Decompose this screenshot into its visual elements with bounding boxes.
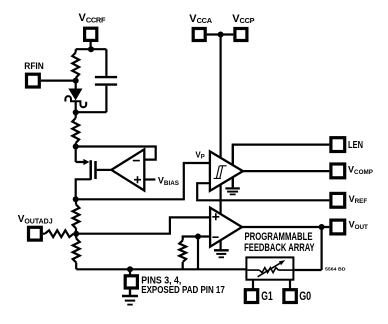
svg-text:RFIN: RFIN — [24, 61, 44, 72]
svg-text:LEN: LEN — [348, 140, 363, 151]
svg-text:EXPOSED PAD PIN 17: EXPOSED PAD PIN 17 — [141, 285, 225, 296]
svg-text:G0: G0 — [299, 289, 311, 303]
svg-text:5564 BD: 5564 BD — [325, 267, 346, 272]
svg-text:PROGRAMMABLE: PROGRAMMABLE — [245, 231, 313, 243]
svg-text:FEEDBACK ARRAY: FEEDBACK ARRAY — [244, 242, 315, 254]
svg-text:G1: G1 — [261, 289, 273, 303]
